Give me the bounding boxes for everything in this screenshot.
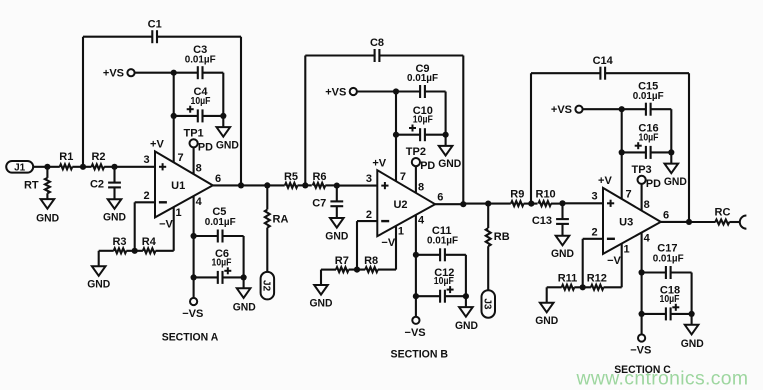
resistor RB <box>486 204 510 291</box>
svg-text:3: 3 <box>592 191 598 203</box>
svg-text:RT: RT <box>24 179 39 191</box>
svg-text:−V: −V <box>607 255 621 267</box>
svg-text:6: 6 <box>215 173 221 185</box>
wire pin 8 <box>641 184 643 211</box>
wire R2 out <box>104 166 114 168</box>
wire -VS loop right <box>465 255 467 296</box>
svg-text:U2: U2 <box>393 199 407 211</box>
-V label <box>607 255 621 267</box>
connector J2 <box>261 272 275 300</box>
capacitor C10 <box>393 105 449 141</box>
test point TP1 <box>184 127 214 153</box>
capacitor C9 <box>396 63 446 98</box>
svg-text:10µF: 10µF <box>639 132 659 143</box>
svg-text:C8: C8 <box>370 37 384 49</box>
wire pin 2 loop <box>135 202 155 251</box>
wire pin 8 <box>415 166 417 193</box>
node output junction (U3) <box>686 219 692 225</box>
wire R9-R10 <box>524 201 538 207</box>
+VS terminal <box>103 68 174 80</box>
wire J1 to R1 <box>33 166 60 168</box>
svg-text:10µF: 10µF <box>191 96 211 107</box>
svg-text:C2: C2 <box>90 179 104 191</box>
svg-text:6: 6 <box>663 209 669 221</box>
wire pin 4 lower <box>193 236 195 277</box>
svg-text:0.01µF: 0.01µF <box>205 217 236 228</box>
svg-text:4: 4 <box>196 196 203 208</box>
svg-text:TP2: TP2 <box>406 146 426 158</box>
capacitor C16 <box>619 123 675 159</box>
resistor R8 <box>364 255 396 272</box>
+VS terminal <box>325 87 396 99</box>
svg-text:10µF: 10µF <box>434 276 454 287</box>
resistor R9 <box>510 189 524 206</box>
wire pin 8 <box>193 147 195 174</box>
capacitor C3 <box>174 44 224 79</box>
wire stage C to RC <box>689 221 716 223</box>
capacitor C6 <box>191 248 247 284</box>
svg-text:1: 1 <box>398 226 404 238</box>
node J1 junction <box>44 164 50 170</box>
svg-text:8: 8 <box>418 182 424 194</box>
wire to pin 3 <box>115 166 156 168</box>
wire pin 2 loop <box>583 239 603 287</box>
svg-text:GND: GND <box>87 279 110 291</box>
wire +VS loop right <box>670 109 672 152</box>
node R11/R12 junction <box>574 284 591 290</box>
wire pin 1 <box>173 207 175 251</box>
connector output <box>740 216 747 229</box>
node +VS junction <box>393 88 399 94</box>
-VS terminal <box>405 296 426 339</box>
capacitor C18 <box>639 285 695 321</box>
capacitor C7 <box>312 183 343 210</box>
svg-text:GND: GND <box>681 338 704 350</box>
svg-text:10µF: 10µF <box>212 257 232 268</box>
svg-text:R3: R3 <box>112 236 126 248</box>
svg-text:R1: R1 <box>59 151 73 163</box>
capacitor C8 <box>370 37 384 62</box>
resistor R12 <box>587 273 622 290</box>
capacitor C12 <box>413 267 469 303</box>
svg-text:+V: +V <box>372 157 386 169</box>
capacitor C14 <box>593 55 614 80</box>
+VS terminal <box>551 104 622 116</box>
svg-text:−VS: −VS <box>630 345 651 357</box>
op-amp U3 <box>603 188 661 254</box>
ground (input shunt) <box>325 206 348 242</box>
pin 7 label <box>178 152 184 164</box>
pin 3 label <box>366 173 372 185</box>
wire stage B to RB <box>463 203 488 205</box>
svg-text:8: 8 <box>644 199 650 211</box>
op-amp U2 <box>377 170 435 236</box>
wire pin 4 <box>415 215 417 255</box>
wire stage A to RA <box>241 184 267 186</box>
wire feedback right vertical (U3) <box>688 73 690 222</box>
pin 6 label <box>215 173 221 185</box>
pin 4 label <box>196 196 203 208</box>
ground (gain resistor) <box>87 251 110 291</box>
label SECTION B <box>391 348 449 360</box>
svg-text:J2: J2 <box>261 280 272 292</box>
svg-text:4: 4 <box>644 232 651 244</box>
pin 2 label <box>144 190 150 202</box>
svg-text:J1: J1 <box>14 162 26 173</box>
ground (input shunt) <box>551 224 574 260</box>
svg-text:0.01µF: 0.01µF <box>427 236 458 247</box>
capacitor C17 <box>639 243 692 280</box>
wire +VS down <box>621 109 623 152</box>
pin 3 label <box>144 154 150 166</box>
+V label <box>598 175 612 187</box>
svg-text:GND: GND <box>103 212 126 224</box>
svg-text:+V: +V <box>150 139 164 151</box>
capacitor C4 <box>171 86 227 122</box>
label SECTION A <box>162 332 219 344</box>
ground (gain resistor) <box>535 287 558 327</box>
-VS terminal <box>630 314 651 357</box>
svg-text:J3: J3 <box>482 298 493 310</box>
svg-text:R11: R11 <box>558 273 578 285</box>
svg-text:+VS: +VS <box>325 87 346 99</box>
svg-text:+VS: +VS <box>551 104 572 116</box>
wire to pin 3 <box>337 185 378 187</box>
resistor R6 <box>312 171 326 188</box>
svg-text:R8: R8 <box>364 255 378 267</box>
wire pin 7 <box>621 152 623 199</box>
wire feedback left vertical (U3) <box>530 73 532 203</box>
-V label <box>159 218 173 230</box>
capacitor C1 <box>148 18 162 43</box>
resistor R4 <box>142 236 174 253</box>
svg-text:TP1: TP1 <box>184 127 204 139</box>
wire feedback left vertical (U2) <box>304 56 306 186</box>
svg-text:R6: R6 <box>312 171 326 183</box>
wire R10 out <box>551 203 563 205</box>
wire pin 4 <box>193 196 195 236</box>
svg-text:−VS: −VS <box>405 327 426 339</box>
ground (gain resistor) <box>310 270 333 310</box>
svg-text:2: 2 <box>366 209 372 221</box>
capacitor C15 <box>622 81 672 116</box>
ground (-VS decoupling) <box>455 296 478 332</box>
svg-text:R7: R7 <box>335 255 349 267</box>
wire R1-R2 <box>72 164 91 170</box>
ground (-VS decoupling) <box>233 277 256 313</box>
svg-text:C7: C7 <box>312 197 326 209</box>
resistor R10 <box>536 189 556 206</box>
svg-text:7: 7 <box>626 189 632 201</box>
test point TP2 <box>406 146 436 172</box>
resistor RT <box>24 167 50 199</box>
resistor R3 <box>99 236 127 253</box>
wire to pin 3 <box>563 202 604 204</box>
wire output (U1) <box>213 184 241 186</box>
wire feedback top (U3) <box>531 72 689 74</box>
wire feedback top (U1) <box>83 36 241 38</box>
node R3/R4 junction <box>126 248 143 254</box>
wire RC out <box>729 221 740 223</box>
pin 8 label <box>418 182 424 194</box>
svg-text:10µF: 10µF <box>413 115 433 126</box>
wire pin 4 <box>641 233 643 273</box>
svg-text:C1: C1 <box>148 18 162 30</box>
svg-text:R10: R10 <box>536 189 556 201</box>
svg-text:R5: R5 <box>284 171 298 183</box>
node +VS junction <box>171 70 177 76</box>
ground (-VS decoupling) <box>681 314 704 350</box>
+V label <box>372 157 386 169</box>
svg-text:TP3: TP3 <box>632 164 652 176</box>
svg-text:R9: R9 <box>510 189 524 201</box>
wire +VS loop right <box>445 92 447 135</box>
svg-text:RA: RA <box>273 214 289 226</box>
wire pin 4 lower <box>415 255 417 296</box>
pin 4 label <box>418 215 425 227</box>
svg-text:0.01µF: 0.01µF <box>407 73 438 84</box>
pin 4 label <box>644 232 651 244</box>
svg-text:RB: RB <box>494 231 510 243</box>
wire +VS down <box>173 73 175 116</box>
svg-text:SECTION A: SECTION A <box>162 332 219 344</box>
svg-text:8: 8 <box>196 163 202 175</box>
svg-text:+V: +V <box>598 175 612 187</box>
op-amp U1 <box>155 151 213 217</box>
svg-text:GND: GND <box>535 315 558 327</box>
svg-text:+VS: +VS <box>103 68 124 80</box>
pin 8 label <box>644 199 650 211</box>
svg-text:4: 4 <box>418 215 425 227</box>
svg-text:GND: GND <box>551 248 574 260</box>
svg-text:−V: −V <box>159 218 173 230</box>
wire pin 7 <box>395 135 397 182</box>
pin 1 label <box>398 226 404 238</box>
capacitor C13 <box>532 200 569 227</box>
resistor RA <box>265 185 289 272</box>
svg-text:GND: GND <box>438 158 461 170</box>
svg-text:C14: C14 <box>593 55 614 67</box>
capacitor C5 <box>191 206 244 243</box>
svg-text:−VS: −VS <box>182 308 203 320</box>
svg-text:GND: GND <box>664 176 687 188</box>
svg-text:6: 6 <box>437 192 443 204</box>
wire RA to R5 <box>267 184 284 186</box>
svg-text:GND: GND <box>36 212 59 224</box>
svg-text:7: 7 <box>178 152 184 164</box>
pin 3 label <box>592 191 598 203</box>
node +VS junction <box>619 106 625 112</box>
resistor R11 <box>547 273 578 290</box>
node RB junction <box>485 201 491 207</box>
svg-text:R2: R2 <box>91 151 105 163</box>
svg-text:7: 7 <box>400 171 406 183</box>
pin 1 label <box>624 243 630 255</box>
pin 1 label <box>176 207 182 219</box>
svg-text:3: 3 <box>366 173 372 185</box>
label SECTION C <box>614 364 671 376</box>
svg-text:GND: GND <box>216 139 239 151</box>
svg-text:GND: GND <box>233 301 256 313</box>
connector J3 <box>482 290 496 318</box>
svg-text:U3: U3 <box>619 217 633 229</box>
pin 7 label <box>400 171 406 183</box>
wire +VS down <box>395 92 397 135</box>
svg-text:PD: PD <box>198 141 213 153</box>
svg-text:1: 1 <box>176 207 182 219</box>
wire -VS loop right <box>243 236 245 277</box>
svg-text:2: 2 <box>144 190 150 202</box>
svg-text:R4: R4 <box>142 236 157 248</box>
wire output (U3) <box>661 221 689 223</box>
watermark www.cntronics.com <box>576 368 749 390</box>
node output junction (U2) <box>460 201 466 207</box>
wire feedback left vertical (U1) <box>82 37 84 167</box>
svg-text:U1: U1 <box>171 180 185 192</box>
svg-text:0.01µF: 0.01µF <box>633 91 664 102</box>
svg-text:GND: GND <box>455 320 478 332</box>
ground (+VS decoupling) <box>216 116 239 151</box>
svg-text:SECTION C: SECTION C <box>614 364 671 376</box>
-VS terminal <box>182 277 203 320</box>
wire -VS loop right <box>691 273 693 314</box>
wire feedback top (U2) <box>305 54 463 56</box>
pin 8 label <box>196 163 202 175</box>
ground (RT) <box>36 199 59 224</box>
capacitor C2 <box>90 164 121 191</box>
wire R6 out <box>325 184 337 186</box>
svg-text:R12: R12 <box>587 273 607 285</box>
resistor R2 <box>91 151 105 169</box>
pin 7 label <box>626 189 632 201</box>
wire R5-R6 <box>298 182 312 188</box>
svg-text:PD: PD <box>420 160 435 172</box>
svg-text:−V: −V <box>381 237 395 249</box>
node R7/R8 junction <box>349 267 366 273</box>
test point TP3 <box>632 164 662 190</box>
resistor R7 <box>321 255 349 272</box>
svg-text:10µF: 10µF <box>660 294 680 305</box>
svg-text:GND: GND <box>310 297 333 309</box>
svg-text:1: 1 <box>624 243 630 255</box>
resistor R5 <box>284 171 298 188</box>
svg-text:C13: C13 <box>532 215 552 227</box>
wire pin 7 <box>173 116 175 163</box>
ground (+VS decoupling) <box>438 135 461 171</box>
wire pin 4 lower <box>641 273 643 314</box>
svg-text:2: 2 <box>592 227 598 239</box>
capacitor C11 <box>413 225 466 261</box>
node RA junction <box>264 182 270 188</box>
wire feedback right vertical (U1) <box>240 37 242 186</box>
ground (input shunt) <box>103 187 126 223</box>
wire pin 1 <box>395 226 397 270</box>
svg-text:SECTION B: SECTION B <box>391 348 449 360</box>
node output junction (U1) <box>238 182 244 188</box>
wire pin 2 loop <box>357 221 377 270</box>
svg-text:GND: GND <box>325 230 348 242</box>
+V label <box>150 139 164 151</box>
wire feedback right vertical (U2) <box>462 56 464 205</box>
ground (+VS decoupling) <box>664 152 687 188</box>
pin 2 label <box>366 209 372 221</box>
wire RB to R9 <box>488 203 511 205</box>
svg-text:0.01µF: 0.01µF <box>653 253 684 264</box>
connector J1 <box>6 161 33 173</box>
-V label <box>381 237 395 249</box>
wire output (U2) <box>435 203 463 205</box>
resistor R1 <box>59 151 73 169</box>
wire pin 1 <box>621 244 623 288</box>
wire +VS loop right <box>222 73 224 116</box>
pin 2 label <box>592 227 598 239</box>
svg-text:PD: PD <box>646 178 661 190</box>
svg-text:RC: RC <box>715 206 731 218</box>
pin 6 label <box>437 192 443 204</box>
svg-text:3: 3 <box>144 154 150 166</box>
svg-text:0.01µF: 0.01µF <box>185 54 216 65</box>
resistor RC <box>715 206 731 224</box>
pin 6 label <box>663 209 669 221</box>
